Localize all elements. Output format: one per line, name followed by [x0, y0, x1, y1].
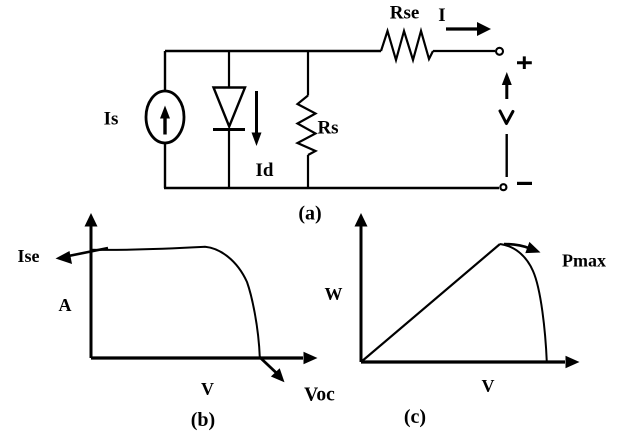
svg-text:Is: Is — [104, 109, 119, 130]
svg-text:Rs: Rs — [317, 118, 338, 139]
svg-text:Pmax: Pmax — [562, 251, 606, 271]
svg-text:V: V — [482, 376, 495, 396]
svg-text:Id: Id — [256, 160, 274, 181]
svg-text:Voc: Voc — [304, 385, 335, 406]
svg-text:(b): (b) — [191, 409, 215, 431]
svg-text:A: A — [59, 295, 72, 315]
svg-text:(a): (a) — [298, 203, 321, 225]
svg-text:V: V — [201, 379, 214, 399]
svg-text:Rse: Rse — [390, 3, 420, 24]
svg-text:W: W — [325, 284, 343, 304]
svg-text:(c): (c) — [404, 406, 426, 428]
svg-text:I: I — [438, 5, 445, 26]
svg-text:Ise: Ise — [18, 246, 40, 266]
